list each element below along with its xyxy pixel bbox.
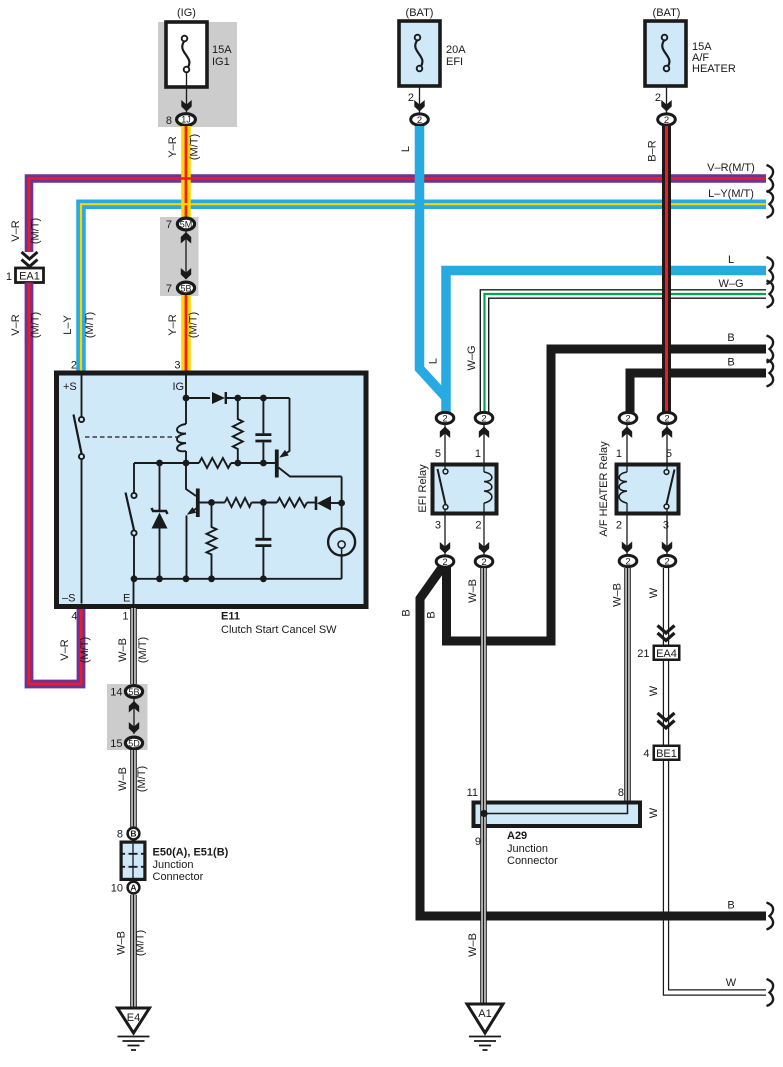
svg-text:B–R: B–R [647,140,659,161]
wire V-R horizontal base [29,179,766,253]
svg-text:V–R: V–R [10,314,22,335]
svg-text:(BAT): (BAT) [653,7,681,19]
capacitor C2 [255,503,271,579]
fuse 20A EFI [399,7,466,86]
svg-text:L: L [400,146,412,152]
svg-text:14: 14 [110,687,122,699]
continuation brace B3 [767,903,774,930]
node bottom rail [131,575,342,606]
svg-text:(M/T): (M/T) [189,134,201,160]
switch SW2 [126,463,137,579]
wire L from EFI fuse [400,126,446,398]
connector EA4 pin 21 [637,626,679,661]
svg-text:Junction: Junction [153,859,194,871]
svg-text:A/F HEATER Relay: A/F HEATER Relay [598,441,610,537]
continuation brace B1 [767,336,774,363]
diode D2 [307,496,342,511]
svg-text:L–Y: L–Y [62,315,74,335]
svg-text:B: B [727,900,734,912]
svg-text:15A: 15A [212,44,232,56]
connector 2 (EFI pin 1) [475,412,493,424]
svg-text:3: 3 [174,360,180,372]
node middle line [134,460,276,467]
svg-text:8: 8 [618,787,624,799]
wire V-R horizontal stripe [10,162,766,252]
svg-text:2: 2 [408,92,414,104]
wire B (to A/F relay pin 1) [630,357,766,414]
svg-text:W: W [726,977,737,989]
wire W-B (A to ground E4) [116,895,147,1007]
wire W-B (A/F relay pin 2 to A29) [612,568,628,801]
svg-text:E11: E11 [221,611,240,623]
junction dot A29 pin 11 [480,810,487,817]
svg-text:8: 8 [166,115,172,127]
switch SW1 (+S to -S) [74,376,85,604]
svg-text:1J: 1J [181,115,191,125]
connector B pin 8 [117,828,140,841]
svg-text:B: B [130,829,136,839]
svg-text:Connector: Connector [507,855,558,867]
svg-text:2: 2 [481,413,486,424]
transistor Q2 [277,398,342,478]
svg-text:2: 2 [616,520,622,532]
arrow into A/F pin 1 [622,427,632,439]
svg-text:Junction: Junction [507,843,548,855]
EFI relay switch [438,425,448,556]
svg-text:V–R(M/T): V–R(M/T) [707,162,755,174]
svg-text:4: 4 [643,748,649,760]
svg-text:2: 2 [442,413,447,424]
connector 2 (A/F fuse) [658,114,676,126]
svg-text:W: W [648,807,660,818]
arrow into EFI pin 5 [440,427,450,439]
arrow into A/F pin 5 [662,427,672,439]
svg-text:V–R: V–R [10,220,22,241]
connector 1J pin 8 [166,114,196,127]
junction connector A29 box [467,787,640,867]
svg-text:EA4: EA4 [656,648,677,660]
connector EA1 pin 1 [6,252,44,283]
svg-text:(M/T): (M/T) [79,637,91,663]
capacitor C1 [255,398,271,463]
svg-text:A: A [130,883,136,893]
node inside A29 [484,802,628,814]
svg-text:9: 9 [475,836,481,848]
svg-text:15: 15 [110,738,122,750]
svg-text:IG: IG [173,381,185,393]
wire fuse IG1 lead [181,72,191,112]
ground A1 [467,1004,503,1050]
svg-text:IG1: IG1 [212,56,230,68]
svg-text:–S: –S [62,593,75,605]
zener diode ZD1 [152,463,168,579]
connector 5M pin 7 [166,218,195,231]
coil L1 [177,398,186,463]
lamp [328,529,355,579]
wire Y-R vertical (1J to 5M) [167,126,201,218]
EFI relay coil [484,425,492,556]
continuation brace W-G [767,281,774,308]
svg-text:(M/T): (M/T) [188,312,200,338]
svg-text:W: W [648,587,660,598]
continuation brace B2 [767,360,774,387]
svg-text:Y–R: Y–R [167,314,179,335]
wire Y-R vertical (5B to E11 pin IG) [167,295,200,371]
svg-text:E4: E4 [127,1012,140,1024]
arrow from A/F pin 3 [662,542,672,554]
fuse 15A A/F HEATER [645,7,736,86]
svg-text:W–B: W–B [117,638,129,662]
arrow from EFI pin 2 [479,542,489,554]
svg-text:W–B: W–B [116,931,128,955]
connector 5B pin 7 [166,282,195,295]
connector 2 (EFI pin 2) [475,556,493,568]
svg-text:Connector: Connector [153,871,204,883]
resistor R3 [225,498,252,507]
continuation brace W [767,979,774,1006]
resistor R5 [207,503,217,579]
svg-text:HEATER: HEATER [692,63,736,75]
svg-text:(M/T): (M/T) [137,637,149,663]
svg-text:2: 2 [625,413,630,424]
svg-text:21: 21 [637,648,649,660]
continuation brace L-Y [767,191,774,218]
dashed mechanical link [85,436,180,438]
connector 2 (EFI fuse) [411,114,429,126]
arrow from A/F pin 2 [622,542,632,554]
wire W-G [466,278,766,413]
arrow into EFI pin 1 [479,427,489,439]
svg-text:W: W [648,685,660,696]
svg-text:A1: A1 [478,1008,491,1020]
svg-text:E50(A), E51(B): E50(A), E51(B) [153,847,229,859]
fuse 15A IG1 gray block [158,22,237,127]
svg-text:8: 8 [117,829,123,841]
continuation brace L [767,257,774,284]
svg-text:B: B [426,611,438,618]
connector 2 (EFI pin 5) [436,412,454,424]
svg-text:2: 2 [664,556,669,567]
connector 2 (A/F pin 3) [658,555,676,567]
connector 2 (EFI pin 3) [436,556,454,568]
svg-text:W–B: W–B [117,767,129,791]
svg-text:+S: +S [63,381,77,393]
A/F relay coil [619,425,627,556]
svg-text:10: 10 [111,883,123,895]
wire V-R (EA1 down, U-turn to E11 pin 4) [10,283,91,685]
svg-text:(IG): (IG) [177,7,196,19]
junction connector E50(A) E51(B) [121,842,229,883]
svg-text:5M: 5M [180,219,193,229]
wire L-Y stripe [62,188,766,371]
svg-text:2: 2 [625,556,630,567]
wire B long (EFI relay pin 3 to bottom right edge) [401,564,767,916]
connector 5B/5D gray block [107,684,148,750]
resistor R2 [233,398,243,463]
svg-text:7: 7 [166,219,172,231]
wire link 5M to 5B with arrows [181,232,191,280]
svg-text:Clutch Start Cancel SW: Clutch Start Cancel SW [221,624,337,636]
node base line Q1 [200,499,278,506]
svg-text:20A: 20A [446,44,466,56]
wire W-B (EFI relay pin 2 to A29 to ground A1) [467,568,484,1005]
lamp branch wire [338,477,345,529]
A/F HEATER relay box [598,441,679,537]
svg-text:E: E [123,593,130,605]
resistor R1 [199,458,231,468]
svg-text:EA1: EA1 [19,271,40,283]
svg-text:B: B [727,357,734,369]
svg-text:V–R: V–R [59,639,71,660]
connector 2 (A/F pin 1) [619,412,637,424]
svg-text:2: 2 [417,115,422,126]
svg-text:W–B: W–B [467,933,479,957]
svg-text:2: 2 [664,115,669,126]
A/F relay switch [664,425,674,556]
EFI relay box [417,448,497,532]
svg-text:B: B [401,609,413,616]
svg-text:5D: 5D [128,738,140,748]
svg-text:(BAT): (BAT) [406,7,434,19]
svg-text:2: 2 [664,413,669,424]
svg-text:(M/T): (M/T) [84,312,96,338]
connector 2 (A/F pin 2) [619,555,637,567]
resistor R4 [277,498,307,507]
svg-text:5B: 5B [180,283,191,293]
ground E4 [118,1008,150,1050]
svg-text:W–G: W–G [466,345,478,370]
wire L-Y horizontal base [81,204,766,371]
svg-text:1: 1 [616,448,622,460]
svg-text:(M/T): (M/T) [30,218,42,244]
svg-text:5: 5 [435,448,441,460]
connector 2 (A/F pin 5) [658,412,676,424]
arrow from EFI pin 3 [440,542,450,554]
svg-text:Y–R: Y–R [167,136,179,157]
wire link 5B to 5D with arrows [129,699,139,734]
diode D1 [186,392,290,404]
svg-text:BE1: BE1 [656,748,677,760]
svg-text:2: 2 [442,557,447,568]
svg-text:1: 1 [122,611,128,623]
svg-text:2: 2 [71,360,77,372]
svg-text:EFI: EFI [446,56,463,68]
connector 5B pin 14 [110,686,142,699]
svg-text:L–Y(M/T): L–Y(M/T) [708,188,754,200]
wire W-B from E11 pin E [117,608,149,685]
svg-text:11: 11 [467,787,478,799]
E11 Clutch Start Cancel SW box [57,360,367,637]
svg-text:B: B [727,332,734,344]
wire IG internal [183,376,190,402]
svg-text:3: 3 [663,520,669,532]
svg-text:3: 3 [435,520,441,532]
svg-text:5B: 5B [128,687,139,697]
svg-text:L: L [728,254,734,266]
wire fuse EFI lead pin 2 [408,86,425,113]
svg-text:L: L [428,358,440,364]
svg-text:W–B: W–B [612,583,624,607]
svg-text:(M/T): (M/T) [136,766,148,792]
transistor Q1 [186,463,198,579]
svg-text:(M/T): (M/T) [135,930,147,956]
wire L branch to right edge [428,254,767,413]
wire B-R from A/F fuse [647,126,667,413]
svg-text:A29: A29 [507,830,527,842]
svg-text:W–G: W–G [718,278,743,290]
connector A pin 10 [111,882,140,895]
continuation brace V-R [767,165,774,192]
wire W from A/F relay pin 3 to right edge [648,568,766,993]
svg-text:1: 1 [6,271,12,283]
svg-text:7: 7 [166,283,172,295]
connector BE1 pin 4 [643,713,679,760]
wire fuse A/F lead pin 2 [655,86,672,113]
svg-text:4: 4 [71,611,77,623]
svg-text:2: 2 [655,92,661,104]
svg-text:W–B: W–B [467,579,479,603]
wire W-B (5D to junction B) [117,750,148,827]
connector 5M/5B gray block [160,217,199,296]
svg-text:2: 2 [475,520,481,532]
fuse 15A IG1 [166,7,232,87]
svg-text:2: 2 [481,557,486,568]
svg-text:EFI Relay: EFI Relay [417,464,429,513]
svg-text:(M/T): (M/T) [30,312,42,338]
connector 5D pin 15 [110,737,142,750]
wire B loop (EFI relay pin 3 to right edge) [426,332,767,641]
svg-text:1: 1 [475,448,481,460]
